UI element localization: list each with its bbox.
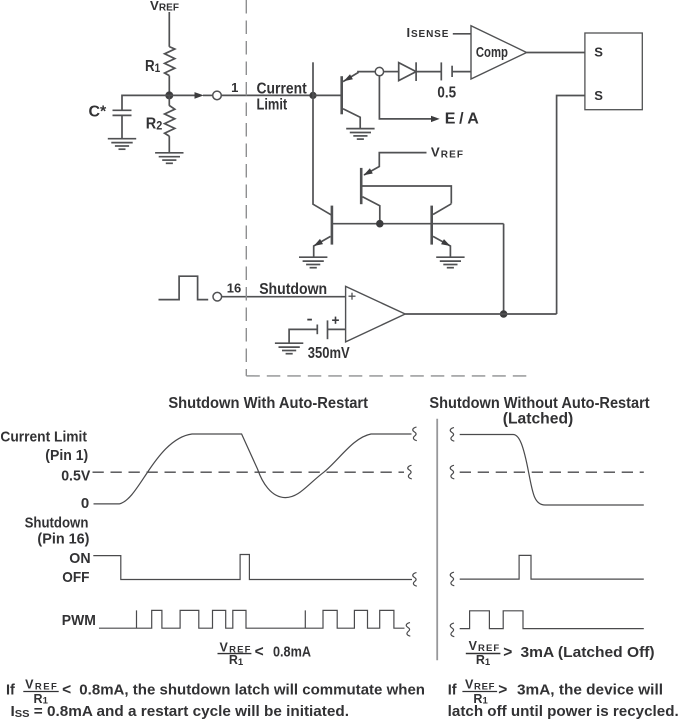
transistor Q3 (mirror left NPN) (314, 206, 332, 257)
svg-text:ISS = 0.8mA and a restart cycl: ISS = 0.8mA and a restart cycle will be … (11, 704, 350, 720)
wire latch lower S input from op-amp output (557, 96, 585, 315)
svg-text:ISENSE: ISENSE (407, 25, 449, 40)
svg-text:Limit: Limit (257, 97, 288, 114)
wire 0.5 to comparator input (452, 71, 471, 73)
label Current Limit (257, 81, 308, 114)
svg-text:<: < (62, 681, 71, 698)
resistor R2 (146, 106, 175, 137)
wire stub up from node (312, 62, 314, 95)
wire E/A takeoff (379, 76, 479, 128)
ground (under Q3) (299, 257, 327, 268)
wire comparator output to latch (527, 52, 585, 54)
svg-text:R2: R2 (146, 116, 163, 133)
pin 16 terminal (213, 281, 241, 301)
wire VREF to R1 (168, 12, 170, 47)
svg-text:>: > (503, 644, 512, 661)
svg-text:Shutdown With Auto-Restart: Shutdown With Auto-Restart (168, 395, 368, 412)
svg-text:VREF: VREF (25, 678, 57, 693)
wire VREF to Q2 emitter (364, 153, 427, 175)
ground (under Q4) (436, 257, 464, 268)
node on current limit line (309, 92, 316, 99)
dashed 0.5V threshold line left (93, 465, 412, 479)
battery 350mV (307, 317, 350, 362)
shutdown waveform left (93, 555, 417, 587)
svg-text:C*: C* (89, 104, 108, 121)
wire current limit line to Q1 base (313, 94, 342, 96)
svg-text:Current: Current (257, 81, 308, 98)
svg-text:(Pin 16): (Pin 16) (37, 531, 89, 548)
diode D1 (399, 62, 416, 81)
node: open circle at Q1 emitter (375, 67, 383, 75)
svg-text:OFF: OFF (62, 569, 89, 586)
wire node down to Q3 collector (313, 95, 332, 215)
wire base rail down to op-amp output (503, 224, 505, 314)
ground (battery) (275, 343, 303, 354)
svg-text:16: 16 (227, 281, 241, 296)
svg-text:Current Limit: Current Limit (0, 429, 87, 446)
resistor R1 (145, 47, 175, 76)
node on base rail (376, 220, 384, 228)
svg-text:0.8mA: 0.8mA (273, 644, 311, 661)
svg-text:PWM: PWM (62, 612, 96, 629)
current limit waveform right (450, 428, 644, 505)
svg-text:R1: R1 (145, 58, 160, 75)
wire Isense to comparator (453, 33, 471, 35)
svg-text:>: > (498, 681, 507, 698)
current limit waveform left (94, 427, 417, 504)
dashed 0.5V threshold line right (450, 465, 644, 479)
PWM waveform right (450, 611, 644, 637)
svg-text:S: S (594, 88, 603, 103)
svg-text:Shutdown: Shutdown (259, 281, 327, 298)
svg-text:(Latched): (Latched) (503, 411, 574, 428)
wire node to R2 (168, 95, 170, 105)
comparator Comp (471, 26, 527, 79)
wire R1 to node (168, 76, 170, 96)
svg-text:ON: ON (69, 550, 90, 567)
net VREF (top supply label) (150, 0, 179, 14)
wire pin 16 to op-amp (222, 296, 346, 298)
heading right column (429, 395, 650, 427)
svg-text:3mA, the device will: 3mA, the device will (517, 682, 663, 698)
formula right: Vref/R1 > 3mA (Latched Off) (466, 639, 655, 668)
transistor Q4 (mirror right NPN) (432, 204, 452, 257)
ground (under Q1) (346, 129, 374, 140)
wire op-amp output (405, 313, 556, 315)
svg-text:3mA (Latched Off): 3mA (Latched Off) (521, 644, 655, 661)
wire R2 to ground (168, 136, 170, 152)
svg-text:If: If (6, 682, 15, 698)
svg-text:0.8mA, the shutdown latch will: 0.8mA, the shutdown latch will commutate… (79, 682, 425, 698)
svg-text:If: If (448, 682, 457, 698)
svg-text:1: 1 (231, 80, 238, 95)
label Current Limit (Pin 1) (0, 429, 90, 513)
ground (under C*) (108, 139, 136, 150)
shutdown waveform right (450, 555, 644, 585)
battery 0.5 (offset) (437, 62, 456, 101)
wire Q2 base to Q4 collector (361, 186, 451, 204)
transistor Q2 (PNP diode-connected) (361, 168, 380, 224)
column divider line (436, 419, 438, 661)
footnote left (6, 678, 425, 720)
svg-text:R1: R1 (476, 653, 491, 668)
svg-text:S: S (594, 44, 603, 59)
svg-text:350mV: 350mV (308, 345, 350, 362)
svg-text:E/A: E/A (445, 111, 479, 128)
svg-text:VREF: VREF (465, 678, 495, 693)
latch box S S (585, 33, 642, 110)
pulse input symbol (159, 276, 209, 299)
label ISENSE (407, 25, 449, 40)
svg-text:0: 0 (81, 495, 89, 512)
svg-text:0.5V: 0.5V (61, 467, 90, 484)
svg-text:Comp: Comp (476, 45, 508, 61)
wire common base rail (332, 223, 504, 225)
footnote right (448, 678, 679, 720)
svg-text:<: < (255, 644, 264, 661)
wire diode to 0.5 offset (416, 71, 441, 73)
svg-text:Shutdown: Shutdown (25, 514, 89, 531)
ground (under R2) (155, 153, 183, 164)
formula left: Vref/R1 < 0.8mA (218, 641, 312, 668)
node: divider junction (165, 91, 173, 99)
svg-text:latch off until power is recyc: latch off until power is recycled. (448, 704, 679, 720)
svg-text:VREF: VREF (469, 639, 500, 654)
wire op-amp inverting input to battery (328, 328, 346, 330)
wire battery to ground (289, 329, 317, 343)
svg-text:VREF: VREF (431, 145, 463, 161)
op-amp U1 (346, 286, 406, 342)
dashed IC boundary horizontal (246, 375, 527, 377)
wire node to pin 1 with arrow (169, 92, 212, 99)
wire pin 1 to current-limit node (221, 94, 313, 96)
svg-text:0.5: 0.5 (437, 85, 456, 102)
wire node to C* (122, 95, 169, 110)
PWM waveform left (99, 610, 410, 636)
svg-text:VREF: VREF (150, 0, 179, 14)
svg-text:(Pin 1): (Pin 1) (45, 447, 88, 464)
label VREF (mirror bias) (431, 145, 463, 161)
node on op-amp output (500, 310, 508, 318)
dashed IC boundary vertical (245, 0, 247, 376)
transistor Q1 (clamp, base on pin1 line) (342, 72, 376, 129)
pin 1 terminal (213, 80, 239, 100)
wire circle to diode (384, 71, 399, 73)
label Shutdown (Pin 16) ON OFF (25, 514, 91, 586)
capacitor C* (89, 104, 132, 139)
